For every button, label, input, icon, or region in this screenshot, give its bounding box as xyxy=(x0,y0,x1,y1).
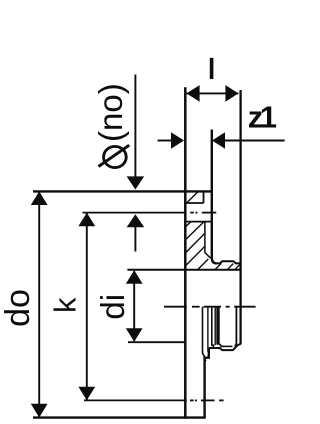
hatch wall strip t2 xyxy=(227,264,233,270)
dimension di line xyxy=(133,271,135,341)
hatch wall strip t3 xyxy=(235,264,240,270)
dimension k line xyxy=(86,214,88,400)
upper tube wall with press bead xyxy=(217,261,241,263)
arrow oe(no) up xyxy=(127,214,145,227)
hatch block d5 xyxy=(198,259,209,270)
socket interior edge q3 xyxy=(212,307,214,348)
arrow do bottom xyxy=(31,404,48,418)
svg-text:k: k xyxy=(47,297,82,313)
arrow di top xyxy=(126,270,143,284)
arrow k top xyxy=(78,213,95,227)
socket interior edge q6 flare xyxy=(220,344,225,346)
socket interior edge q5 xyxy=(216,307,219,345)
bolt hole top edge xyxy=(184,202,203,204)
arrow l left xyxy=(187,85,200,102)
arrow oe(no) down xyxy=(127,176,145,189)
collar interface boundary xyxy=(205,222,211,259)
svg-text:di: di xyxy=(94,294,131,320)
di bottom extension xyxy=(128,341,185,343)
flange top edge + do top extension xyxy=(33,190,213,192)
dimension do line xyxy=(38,192,40,417)
hatch block d2 xyxy=(185,222,204,241)
oe(no) leader line xyxy=(134,75,136,178)
svg-text:(no): (no) xyxy=(92,83,129,142)
dimension l line xyxy=(187,92,239,94)
flange right face + z1 extension + hub fillet xyxy=(212,130,217,264)
hatch block d4 xyxy=(185,246,205,266)
arrow z1 right xyxy=(212,132,225,149)
hatch top band xyxy=(187,192,199,204)
flange left face + l left extension xyxy=(184,87,187,419)
socket mouth inner edge xyxy=(235,307,237,346)
hatch wall strip t1 xyxy=(215,263,221,269)
step vertical above bolt hole xyxy=(203,191,205,203)
socket interior edge q2 xyxy=(207,307,209,352)
arrow l right xyxy=(225,85,238,102)
pipe axis centerline xyxy=(164,306,256,308)
lower plate right face with step xyxy=(205,348,209,418)
arrow z1 left xyxy=(171,132,184,149)
z1 right tail xyxy=(225,140,285,142)
hatch block d1 xyxy=(185,222,191,228)
socket mouth inner bottom edge xyxy=(225,345,233,347)
flange bottom edge + do bottom extension xyxy=(33,416,206,418)
bolt hole bottom edge xyxy=(184,221,212,223)
bore line + di top extension xyxy=(127,269,240,271)
svg-text:do: do xyxy=(0,289,37,327)
label l xyxy=(210,58,214,79)
svg-text:z1: z1 xyxy=(248,99,277,134)
bolt circle centerline (k top extension + dash-dot) xyxy=(83,212,217,214)
lower tube wall with press bead and mouth corner xyxy=(209,344,241,350)
socket interior edge q4 xyxy=(214,307,216,345)
arrow do top xyxy=(31,191,48,205)
oe(no) lower tail xyxy=(134,227,136,252)
arrow di bottom xyxy=(126,328,143,342)
right end face + l right extension xyxy=(239,90,241,307)
k bottom extension + dash-dot xyxy=(84,399,224,401)
label oe(no) diameter symbol xyxy=(99,145,130,167)
socket interior edge q1 xyxy=(203,307,207,361)
right end face lower xyxy=(239,307,241,345)
arrow k bottom xyxy=(78,387,95,401)
z1 left tail xyxy=(158,140,172,142)
hatch block d3 xyxy=(185,233,205,253)
